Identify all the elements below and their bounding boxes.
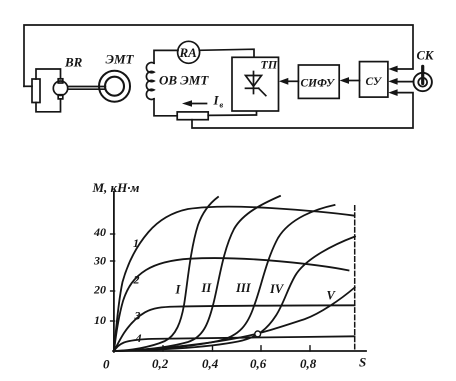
svg-text:0,6: 0,6 (250, 356, 267, 371)
svg-text:ТП: ТП (261, 58, 278, 72)
tachogenerator BR (53, 81, 67, 95)
curve 1 motor characteristic (114, 207, 355, 351)
node arrow into SU bottom (388, 89, 397, 96)
svg-text:V: V (327, 289, 337, 303)
curve IV load (114, 237, 355, 352)
wire SU to SIFU arrow (349, 80, 360, 82)
x ticks (163, 346, 310, 351)
curve V load (114, 288, 355, 352)
svg-text:0,2: 0,2 (152, 356, 169, 371)
ammeter RA (178, 41, 200, 63)
svg-text:ЭМТ: ЭМТ (106, 52, 135, 67)
wire rheostat to TP (208, 111, 256, 115)
svg-text:BR: BR (64, 55, 83, 70)
curve 4 motor characteristic (114, 336, 355, 351)
wire shaft coupling (68, 86, 106, 88)
wire SIFU to TP arrow (288, 80, 298, 82)
svg-text:2: 2 (133, 273, 140, 287)
node arrow into SU top (388, 66, 397, 73)
svg-text:0,8: 0,8 (300, 356, 317, 371)
curve 2 motor characteristic (114, 258, 349, 351)
wire coil bottom to rheostat (154, 99, 177, 116)
svg-text:10: 10 (94, 313, 106, 327)
wire BR loop top (36, 69, 61, 79)
block SU (360, 62, 388, 98)
svg-text:I: I (175, 283, 182, 297)
svg-text:ОВ ЭМТ: ОВ ЭМТ (159, 73, 209, 88)
wire outer speed-feedback loop top (24, 25, 413, 86)
svg-text:0: 0 (103, 357, 110, 372)
curve III load (114, 205, 335, 351)
rheostat field resistor (177, 112, 208, 120)
wire outer loop to resistor (24, 85, 32, 87)
y axis (113, 192, 115, 352)
svg-text:20: 20 (93, 283, 106, 297)
wire SK to SU (397, 81, 414, 83)
wire current-feedback bottom loop (192, 93, 413, 128)
svg-text:М, кН·м: М, кН·м (92, 180, 140, 195)
thyristor symbol (253, 72, 255, 94)
block SIFU (298, 65, 339, 98)
switch SK command (414, 73, 432, 91)
svg-text:IV: IV (269, 282, 285, 296)
svg-text:в: в (220, 101, 224, 110)
y ticks (111, 234, 115, 321)
svg-text:СИФУ: СИФУ (301, 78, 337, 90)
curve II load (114, 196, 280, 351)
svg-text:СК: СК (417, 49, 435, 63)
motor EMT inner (105, 77, 124, 96)
svg-text:4: 4 (135, 331, 142, 345)
node operating point marker (255, 331, 261, 337)
node arrow into SU middle (388, 78, 397, 85)
x axis (113, 350, 366, 352)
svg-text:СУ: СУ (366, 76, 384, 88)
wire ammeter to TP (199, 49, 254, 57)
brush contact bottom of BR (58, 95, 63, 99)
svg-text:S: S (359, 355, 366, 370)
svg-text:1: 1 (133, 236, 139, 250)
svg-text:30: 30 (93, 254, 106, 268)
dashed limit line (354, 206, 356, 351)
wire coil top to ammeter (154, 50, 178, 63)
svg-text:RA: RA (179, 45, 198, 60)
converter TP block (232, 57, 279, 111)
svg-text:0,4: 0,4 (202, 356, 219, 371)
resistor load of BR (32, 79, 40, 103)
GRAPH (111, 192, 366, 352)
motor EMT outer (99, 71, 130, 102)
inductor OV EMT field winding (146, 63, 154, 100)
wire Iv current arrow (191, 103, 207, 105)
svg-text:III: III (235, 281, 252, 295)
curve 3 motor characteristic (114, 305, 355, 351)
wire BR loop bottom (36, 99, 61, 112)
svg-text:3: 3 (134, 309, 141, 323)
brush contact top of BR (58, 79, 63, 83)
svg-text:II: II (201, 281, 213, 295)
svg-text:I: I (213, 93, 220, 108)
curve I load (114, 197, 218, 351)
svg-text:40: 40 (93, 225, 106, 239)
